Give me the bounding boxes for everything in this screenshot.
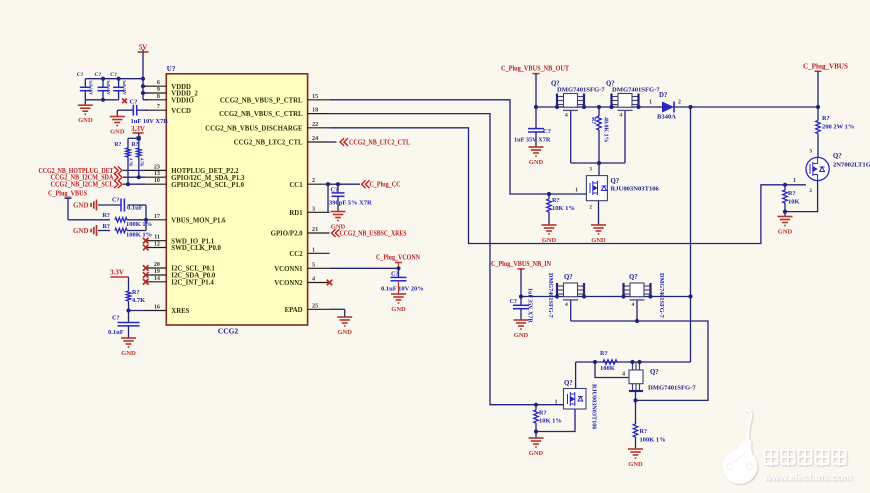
svg-text:DMG7401SFG-7: DMG7401SFG-7 <box>658 273 665 318</box>
junction xres node <box>126 308 130 312</box>
svg-text:1uF 16V: 1uF 16V <box>106 80 111 95</box>
svg-text:Q?: Q? <box>629 274 638 281</box>
no-connect I2C_INT <box>143 279 149 285</box>
wire Q4 gate <box>785 184 806 186</box>
capacitor C10 1uF 35V X7R nb_in <box>520 297 522 306</box>
svg-text:100K 1%: 100K 1% <box>640 437 666 444</box>
junction Q8 gate <box>534 403 538 407</box>
watermark chinese characters <box>765 448 846 466</box>
junction Q4 source gnd <box>783 210 787 214</box>
svg-text:200 2W 1%: 200 2W 1% <box>822 124 854 131</box>
wire decoupling cap top rail <box>85 78 143 80</box>
IC pin 21 GPIO/P2.0 <box>308 232 330 234</box>
svg-text:GND: GND <box>529 450 544 457</box>
net label C_Plug_CC <box>362 180 370 188</box>
junction gate bus nb_in <box>635 319 639 323</box>
svg-text:3.3V: 3.3V <box>131 125 145 133</box>
svg-text:R?: R? <box>132 289 140 296</box>
svg-text:100K 1%: 100K 1% <box>126 232 152 239</box>
junction CC1 cap <box>336 182 340 186</box>
resistor R11 100K sense <box>603 360 617 365</box>
svg-text:C?: C? <box>391 271 399 278</box>
svg-text:SWD_CLK_P0.0: SWD_CLK_P0.0 <box>171 245 221 252</box>
svg-text:12: 12 <box>154 241 160 248</box>
svg-text:CCG2_NB_VBUS_C_CTRL: CCG2_NB_VBUS_C_CTRL <box>219 111 303 118</box>
svg-text:CCG2_NB_LTC2_CTL: CCG2_NB_LTC2_CTL <box>349 138 410 146</box>
wire VBUS_P_CTRL pin15 <box>330 100 587 194</box>
svg-text:CCG2_NB_I2CM_SCL: CCG2_NB_I2CM_SCL <box>51 181 114 189</box>
svg-text:GPIO/P2.0: GPIO/P2.0 <box>271 231 304 238</box>
svg-text:C?: C? <box>130 99 138 106</box>
svg-text:100K 1%: 100K 1% <box>126 221 152 228</box>
IC U1 CCG2 body <box>166 74 307 325</box>
ground R7 <box>542 225 557 234</box>
wire 5V to pin 6 <box>143 85 148 87</box>
svg-text:R?: R? <box>552 197 560 204</box>
svg-text:RJU003N03T106: RJU003N03T106 <box>591 384 598 429</box>
svg-text:4.7K: 4.7K <box>139 158 144 167</box>
svg-text:4: 4 <box>565 302 568 308</box>
junction cap rail <box>101 77 105 81</box>
svg-text:1: 1 <box>649 100 652 106</box>
resistor R7 10K 1% q3 gate pulldown <box>548 194 550 199</box>
junction Q3 gate <box>547 192 551 196</box>
ground VCCD cap <box>116 110 118 116</box>
svg-text:RD1: RD1 <box>289 210 303 217</box>
ground xres cap <box>128 326 130 338</box>
IC pin 2 CC1 <box>308 183 330 185</box>
IC pin 8 VDDIO <box>145 99 166 101</box>
svg-text:2: 2 <box>589 205 592 211</box>
svg-text:8: 8 <box>157 93 160 100</box>
svg-text:GND: GND <box>78 117 93 124</box>
svg-text:5: 5 <box>312 261 315 268</box>
svg-text:XRES: XRES <box>171 308 189 315</box>
svg-text:5V: 5V <box>139 44 148 52</box>
junction gate bus <box>597 161 601 165</box>
svg-text:CCG2: CCG2 <box>218 327 239 336</box>
no-connect I2C_SCL <box>143 265 149 271</box>
wire divider bottom to node <box>127 230 146 232</box>
capacitor C2 decoupling <box>102 79 104 88</box>
IC pin 19 I2C_SDA_P0.0 <box>145 274 166 276</box>
svg-text:GND: GND <box>542 237 557 244</box>
power port 5V <box>138 49 149 52</box>
junction Q7 top pins <box>630 360 634 364</box>
ground Q4 <box>778 217 793 226</box>
svg-text:R?: R? <box>822 115 830 122</box>
junction NB_OUT rail <box>534 105 538 109</box>
resistor R10 10K 1% q8 pulldown <box>535 405 537 410</box>
svg-text:2N7002LT1G: 2N7002LT1G <box>833 162 870 169</box>
wire C_Plug_VBUS down <box>67 198 69 220</box>
wire xres <box>129 310 146 312</box>
capacitor C6 0.1uF xres <box>128 311 130 323</box>
svg-text:CC2: CC2 <box>289 251 303 258</box>
svg-text:15: 15 <box>312 93 318 100</box>
IC pin 11 SWD_IO_P1.1 <box>145 240 166 242</box>
wire i2cm scl <box>123 183 145 185</box>
svg-text:C?: C? <box>543 128 551 135</box>
junction Q8 source gnd <box>534 429 538 433</box>
junction 5V rail <box>141 77 145 81</box>
svg-text:R?: R? <box>102 223 110 230</box>
svg-text:10K: 10K <box>788 199 800 206</box>
wire nb_in top link <box>576 361 691 363</box>
svg-text:25: 25 <box>312 302 318 309</box>
junction R6 top <box>597 105 601 109</box>
svg-text:4: 4 <box>622 372 625 378</box>
svg-text:GND: GND <box>73 202 89 210</box>
svg-text:GPIO/I2C_M_SDA_P1.3: GPIO/I2C_M_SDA_P1.3 <box>171 175 245 182</box>
svg-text:VCONN2: VCONN2 <box>274 280 303 287</box>
svg-text:18: 18 <box>312 107 318 114</box>
svg-text:R?: R? <box>132 142 139 148</box>
no-connect I2C_SDA <box>143 272 149 278</box>
svg-text:0.1uF: 0.1uF <box>127 205 143 212</box>
net label CCG2_NB_LTC2_CTL <box>340 138 348 146</box>
svg-text:DMG7401SFG-7: DMG7401SFG-7 <box>547 273 554 318</box>
svg-text:C?: C? <box>77 72 84 78</box>
svg-text:C_Plug_VBUS: C_Plug_VBUS <box>803 63 848 71</box>
IC pin 14 I2C_INT_P1.4 <box>145 281 166 283</box>
svg-text:GND: GND <box>121 350 136 357</box>
svg-text:R?: R? <box>640 428 648 435</box>
no-connect SWD_IO <box>143 238 149 244</box>
svg-text:GND: GND <box>73 227 89 235</box>
ground Q3 source <box>591 225 606 234</box>
IC pin 12 SWD_CLK_P0.0 <box>145 247 166 249</box>
svg-text:GND: GND <box>529 159 544 166</box>
resistor R5 4.7K xres pullup <box>128 277 130 291</box>
svg-text:3: 3 <box>589 167 592 173</box>
svg-text:C?: C? <box>509 298 517 305</box>
ground CC1 cap <box>331 212 346 221</box>
svg-text:22: 22 <box>312 121 318 128</box>
junction VBUS tap <box>688 105 692 109</box>
svg-text:7: 7 <box>157 103 160 110</box>
wire gate bus nb_in <box>571 321 708 400</box>
svg-text:C?: C? <box>110 72 117 78</box>
svg-text:Q?: Q? <box>564 380 573 387</box>
svg-text:CC1: CC1 <box>289 182 303 189</box>
svg-text:10K 1%: 10K 1% <box>539 418 562 425</box>
wire Q5 gate <box>570 300 572 321</box>
svg-text:R?: R? <box>590 117 596 124</box>
svg-text:U?: U? <box>167 65 176 73</box>
wire VBUS_C_CTRL pin18 <box>330 114 536 405</box>
svg-text:4: 4 <box>565 113 568 119</box>
IC pin 10 GPIO/I2C_M_SCL_P1.0 <box>145 183 166 185</box>
wire decoupling cap bottom rail <box>85 99 118 101</box>
svg-text:3: 3 <box>809 149 812 155</box>
junction VBUS nb_in rail <box>688 294 692 298</box>
svg-text:VCCD: VCCD <box>171 108 191 115</box>
svg-text:VDDIO: VDDIO <box>171 97 194 104</box>
junction NB_IN cap <box>519 294 523 298</box>
wire Q8 source <box>536 409 575 432</box>
junction Q7 bottom <box>633 398 637 402</box>
ground Q8 <box>529 438 544 447</box>
svg-text:1uF 16V: 1uF 16V <box>122 80 127 95</box>
junction VBUS_MON node <box>144 218 148 222</box>
svg-text:VCONN1: VCONN1 <box>274 266 303 273</box>
wire Q2 gate <box>624 111 626 163</box>
svg-text:R?: R? <box>114 142 121 148</box>
resistor R9 10K q4 gate pulldown <box>784 185 786 190</box>
svg-text:www.elecfans.com: www.elecfans.com <box>763 472 852 484</box>
capacitor C5 0.1uF vbus mon <box>91 200 96 211</box>
ground VCONN cap <box>398 281 400 294</box>
no-connect SWD_CLK <box>143 245 149 251</box>
svg-text:C?: C? <box>112 315 120 322</box>
wire divider top <box>68 219 110 221</box>
resistor R6 40.0K 1% gate pullup <box>598 107 600 116</box>
resistor R12 100K 1% sense pulldown <box>635 400 637 424</box>
wire hotplug det <box>123 169 145 171</box>
svg-text:DMG7401SFG-7: DMG7401SFG-7 <box>648 385 696 392</box>
svg-text:1uF 35V X7R: 1uF 35V X7R <box>514 137 551 144</box>
wire pin24 to label <box>330 141 337 143</box>
svg-text:GND: GND <box>514 332 529 339</box>
IC pin 16 XRES <box>145 310 166 312</box>
wire 5V to pin 8 <box>143 99 148 101</box>
svg-text:I2C_INT_P1.4: I2C_INT_P1.4 <box>171 279 214 286</box>
wire VBUS NB_OUT rail <box>536 106 654 108</box>
svg-text:DMG7401SFG-7: DMG7401SFG-7 <box>557 87 605 94</box>
svg-text:13: 13 <box>154 170 160 177</box>
svg-text:R?: R? <box>600 350 608 357</box>
IC pin 17 VBUS_MON_P1.6 <box>145 219 166 221</box>
wire VCONN1 net <box>330 267 399 269</box>
wire Q7 gate tap <box>595 362 629 378</box>
ground decoupling caps <box>84 100 86 105</box>
IC pin 20 I2C_SCL_P0.1 <box>145 267 166 269</box>
svg-text:Q?: Q? <box>611 178 620 185</box>
transistor Q3 RJU003N03T106 top <box>598 163 600 176</box>
ground R12 <box>628 449 643 458</box>
IC pin 24 CCG2_NB_LTC2_CTL <box>308 141 330 143</box>
svg-text:40.0K 1%: 40.0K 1% <box>603 117 609 143</box>
svg-text:C_Plug_VBUS_NB_IN: C_Plug_VBUS_NB_IN <box>491 260 551 268</box>
IC pin 5 VCONN1 <box>308 267 330 269</box>
svg-text:16: 16 <box>154 304 160 311</box>
IC pin 13 GPIO/I2C_M_SDA_P1.3 <box>145 176 166 178</box>
ground EPAD <box>337 317 352 326</box>
junction Q4 gate <box>783 183 787 187</box>
svg-text:C_Plug_VBUS_NB_OUT: C_Plug_VBUS_NB_OUT <box>501 65 569 73</box>
svg-text:2: 2 <box>312 177 315 184</box>
junction CC1 rd1 <box>326 182 330 186</box>
svg-text:EPAD: EPAD <box>285 307 303 314</box>
wire RD1 to CC1 <box>327 184 329 212</box>
svg-text:20: 20 <box>154 261 160 268</box>
svg-text:1: 1 <box>575 188 578 194</box>
wire gate bus nb_out <box>571 162 625 164</box>
resistor R3 100K 1% divider top <box>115 218 127 223</box>
junction SCL pullup <box>126 182 130 186</box>
IC pin 23 HOTPLUG_DET_P2.2 <box>145 169 166 171</box>
wire 3.3V to pullups <box>138 133 140 138</box>
svg-text:2: 2 <box>809 188 812 194</box>
capacitor C1 decoupling <box>84 79 86 88</box>
svg-text:3: 3 <box>312 205 315 212</box>
svg-text:Q?: Q? <box>833 153 842 160</box>
wire i2cm sda <box>123 176 145 178</box>
svg-text:2: 2 <box>678 100 681 106</box>
ground nb_in cap <box>520 309 522 320</box>
wire CC1 net <box>330 183 360 185</box>
capacitor C4 VCCD 1uF 10V X7R <box>137 109 148 111</box>
svg-text:17: 17 <box>154 213 160 220</box>
IC pin 15 CCG2_NB_VBUS_P_CTRL <box>308 99 330 101</box>
svg-text:4.7K: 4.7K <box>129 158 134 167</box>
svg-text:14: 14 <box>154 275 160 282</box>
svg-text:C?: C? <box>95 72 102 78</box>
svg-text:4: 4 <box>312 276 315 283</box>
wire diode to VBUS <box>674 106 818 108</box>
capacitor C3 decoupling <box>118 79 120 88</box>
svg-text:390pF 5% X7R: 390pF 5% X7R <box>329 200 372 207</box>
resistor R8 200 2W 1% <box>817 107 819 121</box>
svg-text:I2C_SCL_P0.1: I2C_SCL_P0.1 <box>171 266 215 273</box>
svg-text:C_Plug_CC: C_Plug_CC <box>370 181 401 189</box>
IC pin 22 CCG2_NB_VBUS_DISCHARGE <box>308 127 330 129</box>
wire Q1 gate <box>570 111 572 163</box>
IC pin 18 CCG2_NB_VBUS_C_CTRL <box>308 113 330 115</box>
resistor R4 100K 1% divider bottom <box>91 225 96 236</box>
wire Q8 gate <box>536 404 564 406</box>
junction Q2 pins <box>609 105 613 109</box>
svg-text:RJU003N03T106: RJU003N03T106 <box>611 186 660 193</box>
svg-text:1uF 16V: 1uF 16V <box>89 80 94 95</box>
svg-text:DMG7401SFG-7: DMG7401SFG-7 <box>612 87 660 94</box>
svg-text:GND: GND <box>337 329 352 336</box>
svg-text:GND: GND <box>591 237 606 244</box>
svg-text:10K 1%: 10K 1% <box>552 205 575 212</box>
svg-text:100K: 100K <box>600 365 615 372</box>
wire 5V to pin 9 <box>143 92 148 94</box>
svg-text:CCG2_NB_LTC2_CTL: CCG2_NB_LTC2_CTL <box>234 140 303 147</box>
wire NB_IN rail <box>521 296 691 298</box>
svg-text:C_Plug_VCONN: C_Plug_VCONN <box>376 254 420 262</box>
svg-text:4: 4 <box>632 302 635 308</box>
no-connect VCONN2 <box>327 280 333 286</box>
svg-text:1uF 10V X7R: 1uF 10V X7R <box>131 118 169 125</box>
svg-text:1: 1 <box>312 246 315 253</box>
IC pin 6 VDDD <box>145 85 166 87</box>
svg-text:R?: R? <box>102 212 110 219</box>
transistor Q4 2N7002LT1G <box>806 157 829 180</box>
svg-text:GPIO/I2C_M_SCL_P1.0: GPIO/I2C_M_SCL_P1.0 <box>171 182 244 189</box>
wire EPAD to gnd <box>330 308 345 310</box>
svg-text:CCG2_NB_VBUS_P_CTRL: CCG2_NB_VBUS_P_CTRL <box>220 97 303 104</box>
capacitor C7 390pF CC1 <box>337 184 339 193</box>
svg-text:0.1uF: 0.1uF <box>108 329 124 336</box>
transistor Q8 RJU003N03T106 bottom <box>575 362 577 389</box>
junction SDA pullup <box>137 175 141 179</box>
svg-text:Q?: Q? <box>564 274 573 281</box>
IC pin 9 VDDD_2 <box>145 92 166 94</box>
svg-text:Q?: Q? <box>650 369 659 376</box>
svg-text:1uF 35V X7R: 1uF 35V X7R <box>527 288 533 323</box>
svg-text:GND: GND <box>391 306 406 313</box>
wire Q4 source <box>785 181 818 212</box>
svg-text:CCG2_NB_USBSC_XRES: CCG2_NB_USBSC_XRES <box>340 229 407 237</box>
svg-text:4: 4 <box>620 113 623 119</box>
watermark elecfans logo <box>723 410 758 483</box>
svg-text:3.3V: 3.3V <box>110 269 124 277</box>
svg-text:C_Plug_VBUS: C_Plug_VBUS <box>48 190 87 198</box>
wire Q6 gate <box>636 300 638 321</box>
svg-text:21: 21 <box>312 226 318 233</box>
svg-text:GND: GND <box>628 461 643 468</box>
IC pin 1 CC2 <box>308 252 330 254</box>
junction Q6 pins <box>621 294 625 298</box>
svg-text:C?: C? <box>331 186 339 193</box>
IC pin 4 VCONN2 <box>308 282 330 284</box>
junction R11 gate tap <box>593 360 597 364</box>
svg-text:0.1uF 10V 20%: 0.1uF 10V 20% <box>381 286 424 293</box>
svg-text:10: 10 <box>154 177 160 184</box>
junction VCONN <box>396 266 400 270</box>
IC pin 25 EPAD <box>308 308 330 310</box>
wire VBUS junction vertical <box>690 107 692 362</box>
svg-text:D?: D? <box>659 92 667 99</box>
wire 5V vertical <box>142 52 144 100</box>
wire VBUS_DISCHARGE pin22 <box>330 128 785 244</box>
svg-text:R?: R? <box>788 190 796 197</box>
svg-text:B340A: B340A <box>657 114 676 121</box>
wire Q7 bottom pins <box>635 391 637 400</box>
transistor Q7 DMG7401SFG-7 vertical <box>629 362 643 391</box>
capacitor C9 1uF 35V X7R nb_out <box>535 107 537 129</box>
svg-text:VBUS_MON_P1.6: VBUS_MON_P1.6 <box>171 217 226 224</box>
ground nb_out cap <box>535 132 537 147</box>
IC pin 7 VCCD <box>145 109 166 111</box>
svg-text:4.7K: 4.7K <box>132 297 145 304</box>
IC pin 3 RD1 <box>308 211 330 213</box>
svg-text:C?: C? <box>112 197 120 204</box>
net label CCG2_NB_USBSC_XRES <box>332 229 340 237</box>
svg-text:GND: GND <box>778 228 793 235</box>
svg-text:24: 24 <box>312 135 318 142</box>
wire Q3 source pin2 <box>598 201 600 225</box>
junction Q1 pins <box>555 105 559 109</box>
capacitor C8 0.1uF VCONN <box>398 268 400 277</box>
junction Q5 pins <box>555 294 559 298</box>
svg-text:1: 1 <box>793 178 796 184</box>
svg-text:CCG2_NB_VBUS_DISCHARGE: CCG2_NB_VBUS_DISCHARGE <box>205 125 303 132</box>
svg-text:R?: R? <box>539 410 547 417</box>
svg-text:GND: GND <box>110 128 125 135</box>
